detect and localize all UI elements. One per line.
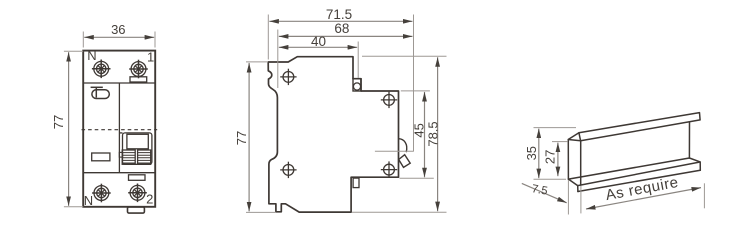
dimension 77 (side) [234,62,276,213]
bottom terminal separator line [83,172,155,174]
dimension 40 [279,34,358,78]
side screw top-left [280,69,296,85]
dimension As require [581,174,705,214]
dimension 27 [542,142,567,177]
dimension 7.5 [522,180,569,215]
dimension 71.5 [268,7,413,151]
screw terminal top-left [92,60,111,79]
DIN clip arc [399,139,407,153]
svg-text:77: 77 [51,115,66,129]
rail bottom flange front-bottom edge [578,170,700,191]
rail web right edge [688,122,690,158]
rail left end vertical near [567,140,569,180]
dimension 36 (front width) [83,22,155,47]
rail left end vertical far [580,141,582,185]
rail web bottom edge [568,158,689,179]
side screw bottom-right [381,161,397,177]
terminal clamp plate top-right [130,77,147,82]
rail bottom flange left end [568,179,578,191]
dimension 35 [524,128,576,180]
side screw bottom-left [280,162,296,178]
svg-text:2: 2 [146,191,153,206]
rail bottom flange front-top edge [578,162,700,186]
dimension 77 (front height) [51,51,83,207]
svg-text:45: 45 [411,123,426,137]
screw terminal top-right [129,60,148,79]
rail left end wedge [568,133,580,141]
module divider line [118,83,120,173]
test button symbol [91,87,110,98]
svg-text:1: 1 [147,49,154,64]
dashed center line [82,129,158,131]
svg-text:77: 77 [234,131,249,145]
dimension 78.5 [352,56,447,212]
toggle box on side top [353,79,361,91]
svg-text:N: N [87,48,96,63]
clip witness line [375,150,414,152]
svg-text:7.5: 7.5 [531,183,549,198]
svg-text:78.5: 78.5 [426,121,441,146]
dimension 68 [278,21,413,88]
svg-text:N: N [84,193,93,208]
screw terminal bottom-right [128,184,147,203]
toggle switch right module [119,133,152,164]
svg-text:27: 27 [542,150,557,164]
side screw top-right [381,92,397,108]
terminal clamp plate bottom-right [129,175,146,181]
DIN clip key (diamond) [399,155,411,168]
svg-text:68: 68 [334,21,349,36]
screw terminal bottom-left [92,184,111,203]
svg-text:35: 35 [524,146,539,160]
rail bottom flange right end [689,158,700,170]
side view body outline [268,57,398,212]
rail top flange strip [579,113,700,141]
dimension 45 [400,91,434,178]
svg-text:40: 40 [311,34,326,49]
svg-text:36: 36 [111,22,125,37]
bottom mounting tab [128,207,145,213]
circle in toggle box [353,83,360,90]
small notch under right ledge [353,178,359,188]
top terminal separator line [83,82,155,84]
breaker body outline [83,51,155,207]
label window [92,153,110,161]
